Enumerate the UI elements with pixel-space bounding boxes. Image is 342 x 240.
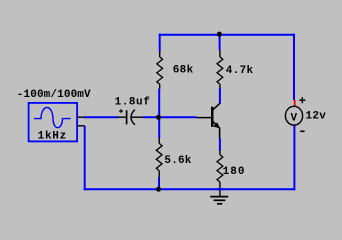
wire left branch lower (R3 to bottom rail) bbox=[158, 177, 160, 189]
resistor R2 4.7k top lead bbox=[219, 50, 221, 57]
transistor Q1 emitter line bbox=[213, 122, 219, 128]
signal source V1 pin stub upper bbox=[77, 116, 84, 118]
svg-text:12v: 12v bbox=[306, 111, 327, 123]
voltage source V2 plus sign bbox=[299, 97, 305, 103]
signal source V1 box bbox=[29, 103, 78, 141]
resistor R3 5.6k bottom lead bbox=[158, 171, 160, 178]
capacitor C1 right curved plate bbox=[131, 110, 135, 125]
svg-text:V: V bbox=[291, 112, 298, 124]
svg-text:-100m/100mV: -100m/100mV bbox=[17, 89, 91, 101]
wire top rail bbox=[159, 34, 295, 36]
capacitor C1 right lead bbox=[131, 116, 143, 118]
signal source V1 sine wave bbox=[34, 108, 71, 128]
signal source V1 pin stub lower bbox=[77, 125, 84, 127]
wire right branch upper (top rail to V2 plus terminal) bbox=[293, 34, 295, 100]
node junction dot base node bbox=[156, 115, 161, 120]
resistor R4 180 top lead bbox=[219, 150, 221, 155]
svg-text:68k: 68k bbox=[173, 64, 194, 76]
wire left branch middle (R1 to R3 through base node) bbox=[158, 89, 160, 138]
resistor R4 180 bottom lead into ground bbox=[219, 182, 221, 197]
resistor R3 5.6k zigzag bbox=[156, 143, 162, 170]
resistor R1 68k zigzag bbox=[157, 57, 163, 84]
capacitor C1 left plate bbox=[126, 110, 128, 124]
wire bottom rail overlay at ground crossing bbox=[217, 188, 224, 190]
wire right branch lower (V2 to bottom rail) bbox=[293, 125, 295, 190]
node junction dot bottom rail bbox=[156, 187, 161, 192]
svg-text:180: 180 bbox=[223, 166, 246, 178]
svg-text:4.7k: 4.7k bbox=[226, 65, 254, 77]
wire bottom rail bbox=[84, 188, 295, 190]
resistor R1 68k top lead bbox=[159, 51, 161, 57]
capacitor C1 left lead bbox=[118, 116, 127, 118]
wire collector branch upper (top rail to R2) bbox=[219, 34, 221, 50]
wire base (node to Q1 base lead) bbox=[159, 116, 197, 118]
transistor Q1 emitter vertical lead bbox=[219, 128, 221, 139]
wire emitter branch (Q1 emitter to R4) bbox=[219, 138, 221, 150]
resistor R4 180 zigzag bbox=[217, 155, 223, 182]
wire red terminal stub of V2 bbox=[294, 100, 296, 106]
wire left branch upper (top rail to R1) bbox=[159, 34, 161, 52]
voltage source V2 circle bbox=[285, 106, 302, 125]
ground bar 2 bbox=[214, 199, 226, 201]
transistor Q1 emitter arrowhead bbox=[213, 122, 219, 128]
resistor R3 5.6k top lead bbox=[158, 138, 160, 144]
transistor Q1 base bar bbox=[211, 107, 214, 127]
wire collector branch lower (R2 to Q1 collector) bbox=[219, 88, 221, 104]
capacitor C1 plus polarity mark bbox=[119, 109, 123, 113]
svg-text:1.8uf: 1.8uf bbox=[115, 97, 151, 109]
resistor R2 4.7k bottom lead bbox=[219, 84, 221, 88]
ground bar 3 bbox=[217, 203, 222, 205]
voltage source V2 minus sign bbox=[300, 130, 304, 132]
wire source lower drop bbox=[84, 126, 86, 190]
transistor Q1 collector line bbox=[213, 103, 220, 109]
node junction dot top rail bbox=[217, 32, 222, 37]
resistor R2 4.7k zigzag bbox=[217, 57, 223, 84]
wire capacitor to base node bbox=[143, 116, 160, 118]
resistor R1 68k bottom lead bbox=[159, 84, 161, 89]
svg-text:1kHz: 1kHz bbox=[38, 131, 67, 143]
wire source to capacitor bbox=[84, 116, 118, 118]
svg-text:5.6k: 5.6k bbox=[164, 155, 191, 167]
ground bar 1 bbox=[210, 196, 228, 198]
transistor Q1 base lead bbox=[197, 117, 211, 119]
